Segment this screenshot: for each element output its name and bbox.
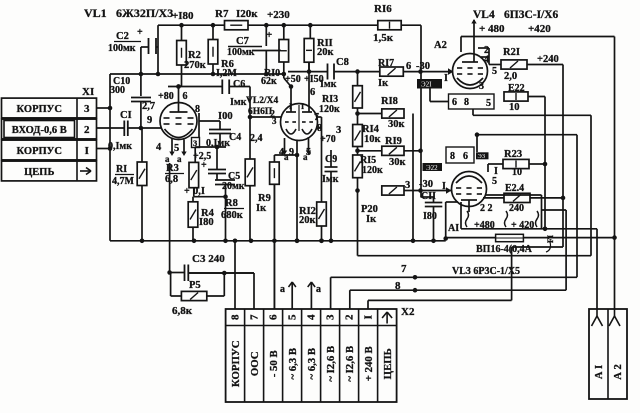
svg-text:CII: CII (421, 191, 436, 202)
svg-text:VL3 6Р3С-1/Х5: VL3 6Р3С-1/Х5 (452, 266, 520, 277)
svg-text:ЦЕПЬ: ЦЕПЬ (382, 348, 394, 379)
svg-text:+I80: +I80 (172, 10, 194, 22)
svg-text:Iк: Iк (378, 78, 389, 89)
svg-text:1,5к: 1,5к (373, 32, 394, 44)
svg-text:8: 8 (395, 280, 401, 292)
svg-text:АI: АI (448, 223, 459, 234)
svg-text:10к: 10к (364, 134, 382, 145)
svg-text:R7: R7 (215, 8, 229, 20)
svg-text:C8: C8 (336, 57, 349, 68)
svg-text:+: + (266, 29, 272, 41)
svg-text:VL2/Х4: VL2/Х4 (246, 96, 278, 106)
svg-text:6: 6 (406, 61, 411, 72)
svg-text:C3 240: C3 240 (192, 253, 225, 265)
svg-text:270к: 270к (184, 60, 207, 71)
svg-text:C2: C2 (116, 31, 129, 42)
svg-text:Iк: Iк (366, 214, 377, 225)
svg-text:R3: R3 (166, 163, 179, 174)
svg-text:4,7М: 4,7М (112, 176, 135, 187)
svg-text:2,4: 2,4 (250, 133, 263, 144)
svg-text:I: I (444, 73, 448, 84)
svg-text:+230: +230 (267, 9, 290, 21)
svg-text:+240: +240 (537, 54, 559, 65)
svg-text:КОРПУС: КОРПУС (230, 340, 242, 387)
svg-text:C4: C4 (229, 132, 241, 143)
svg-text:Iмк: Iмк (322, 174, 339, 185)
svg-text:6,8к: 6,8к (172, 305, 193, 317)
svg-text:R8: R8 (225, 198, 238, 209)
svg-text:2: 2 (344, 314, 356, 320)
svg-text:I80: I80 (199, 217, 214, 228)
svg-text:a: a (280, 284, 285, 295)
svg-text:C7: C7 (236, 36, 249, 47)
svg-text:120к: 120к (319, 104, 340, 115)
svg-text:30к: 30к (389, 157, 407, 168)
svg-text:VL4: VL4 (473, 9, 495, 21)
svg-text:120к: 120к (362, 165, 383, 176)
svg-text:+ 420: + 420 (511, 220, 534, 231)
svg-text:~ 6,3 В: ~ 6,3 В (287, 348, 299, 380)
svg-text:5: 5 (492, 66, 497, 77)
svg-text:+70: +70 (320, 134, 336, 145)
svg-text:8: 8 (464, 97, 469, 108)
svg-text:3: 3 (479, 81, 484, 92)
svg-text:+: + (137, 27, 143, 38)
svg-text:2: 2 (84, 124, 90, 136)
svg-text:~ 6,3 В: ~ 6,3 В (306, 348, 318, 380)
svg-text:2 2: 2 2 (480, 203, 493, 214)
svg-text:I: I (363, 315, 375, 319)
svg-text:RI6: RI6 (374, 3, 392, 15)
svg-text:4: 4 (156, 142, 162, 153)
svg-text:6: 6 (183, 91, 188, 102)
svg-text:R2I: R2I (503, 47, 520, 58)
svg-text:5: 5 (492, 176, 497, 187)
svg-text:I,2М: I,2М (216, 68, 237, 79)
svg-text:Е22: Е22 (508, 83, 525, 94)
svg-text:100мк: 100мк (227, 47, 255, 58)
svg-text:VL1: VL1 (84, 6, 107, 20)
svg-text:5: 5 (486, 98, 491, 109)
svg-text:Iмк: Iмк (230, 97, 247, 108)
svg-text:8: 8 (230, 314, 242, 320)
svg-text:А I: А I (594, 365, 605, 379)
svg-text:6: 6 (310, 87, 315, 98)
svg-text:ВП16-4(0,4А: ВП16-4(0,4А (476, 244, 533, 255)
svg-text:XI: XI (82, 86, 94, 98)
svg-text:I: I (301, 102, 304, 111)
svg-text:ЦЕПЬ: ЦЕПЬ (24, 167, 54, 178)
svg-text:62к: 62к (261, 76, 277, 87)
svg-text:~ I2,6 В: ~ I2,6 В (344, 346, 356, 382)
svg-text:Iмк: Iмк (320, 79, 337, 90)
svg-text:5: 5 (287, 314, 299, 320)
svg-text:3: 3 (193, 138, 197, 148)
svg-text:ООС: ООС (249, 351, 261, 376)
svg-text:4: 4 (306, 314, 318, 320)
svg-text:CI: CI (120, 110, 132, 121)
svg-text:Iк: Iк (256, 203, 267, 214)
svg-text:I: I (442, 181, 446, 192)
svg-text:FI: FI (546, 235, 555, 243)
svg-text:КОРПУС: КОРПУС (17, 146, 62, 157)
svg-text:5: 5 (174, 143, 179, 154)
svg-text:30к: 30к (388, 119, 406, 130)
svg-text:6Н6П: 6Н6П (248, 107, 273, 117)
svg-text:20к: 20к (317, 47, 335, 58)
svg-text:+480: +480 (474, 220, 495, 231)
svg-text:5: 5 (306, 147, 311, 158)
svg-text:I: I (85, 145, 89, 157)
svg-text:6: 6 (463, 151, 468, 162)
svg-text:I: I (494, 166, 498, 177)
svg-text:-30: -30 (416, 61, 430, 72)
svg-text:I20к: I20к (236, 8, 258, 20)
svg-text:240: 240 (509, 203, 524, 214)
svg-text:Р5: Р5 (189, 280, 201, 291)
svg-text:2,0: 2,0 (504, 71, 517, 82)
svg-text:4: 4 (484, 55, 489, 66)
svg-text:I: I (289, 102, 292, 111)
svg-text:680к: 680к (221, 210, 244, 221)
svg-text:+ 480: + 480 (479, 23, 505, 35)
svg-text:100мк: 100мк (108, 43, 136, 54)
svg-text:C9: C9 (325, 154, 337, 165)
svg-text:RI7: RI7 (378, 58, 394, 69)
svg-text:8: 8 (450, 151, 455, 162)
svg-text:300: 300 (110, 85, 125, 96)
svg-text:2,7: 2,7 (142, 101, 155, 112)
svg-text:6,8: 6,8 (165, 174, 178, 185)
svg-text:RI9: RI9 (385, 136, 402, 147)
svg-text:А2: А2 (434, 40, 447, 51)
svg-text:4: 4 (279, 147, 284, 158)
svg-text:Х2: Х2 (401, 306, 415, 318)
svg-text:+80: +80 (158, 91, 174, 102)
svg-text:3: 3 (405, 180, 410, 191)
svg-text:20к: 20к (299, 215, 317, 226)
svg-text:a: a (177, 154, 182, 164)
svg-text:C6: C6 (233, 79, 245, 90)
svg-text:7: 7 (401, 263, 407, 275)
svg-text:7: 7 (249, 314, 261, 320)
svg-text:RI: RI (116, 164, 127, 175)
svg-text:А 2: А 2 (613, 364, 624, 379)
svg-text:6Ж32П/Х3: 6Ж32П/Х3 (116, 6, 173, 20)
svg-text:a: a (165, 154, 170, 164)
svg-text:RI8: RI8 (381, 96, 398, 107)
svg-text:6: 6 (452, 97, 457, 108)
svg-text:3: 3 (272, 116, 277, 126)
svg-text:КОРПУС: КОРПУС (17, 104, 62, 115)
svg-text:9: 9 (289, 147, 294, 158)
svg-text:Е2.4: Е2.4 (505, 183, 524, 194)
svg-text:+: + (201, 160, 207, 171)
svg-text:ВХОД-0,6 В: ВХОД-0,6 В (12, 125, 67, 136)
svg-text:- 50 В: - 50 В (268, 350, 280, 377)
svg-text:0,Iмк: 0,Iмк (108, 141, 132, 152)
svg-text:3: 3 (84, 103, 90, 115)
svg-text:6: 6 (268, 314, 280, 320)
svg-text:10: 10 (512, 167, 522, 178)
svg-text:I80: I80 (423, 211, 437, 222)
svg-text:9: 9 (147, 115, 152, 126)
svg-text:ЭЗ: ЭЗ (478, 153, 486, 160)
svg-text:Э22: Э22 (426, 164, 438, 172)
svg-text:+: + (184, 186, 190, 197)
svg-text:0,I: 0,I (193, 186, 205, 197)
svg-text:+50: +50 (285, 74, 301, 85)
svg-text:a: a (316, 284, 321, 295)
svg-text:I00: I00 (218, 111, 233, 122)
svg-text:10: 10 (509, 102, 520, 113)
svg-text:R23: R23 (504, 149, 522, 160)
svg-text:-30: -30 (419, 179, 433, 190)
svg-text:3: 3 (325, 314, 337, 320)
svg-text:Э2I: Э2I (421, 81, 432, 89)
svg-text:+420: +420 (528, 23, 551, 35)
svg-text:+ 240 В: + 240 В (363, 346, 375, 381)
svg-text:6П3С-I/Х6: 6П3С-I/Х6 (504, 9, 559, 21)
svg-text:~ I2,6 В: ~ I2,6 В (325, 346, 337, 382)
svg-text:3: 3 (336, 125, 341, 136)
